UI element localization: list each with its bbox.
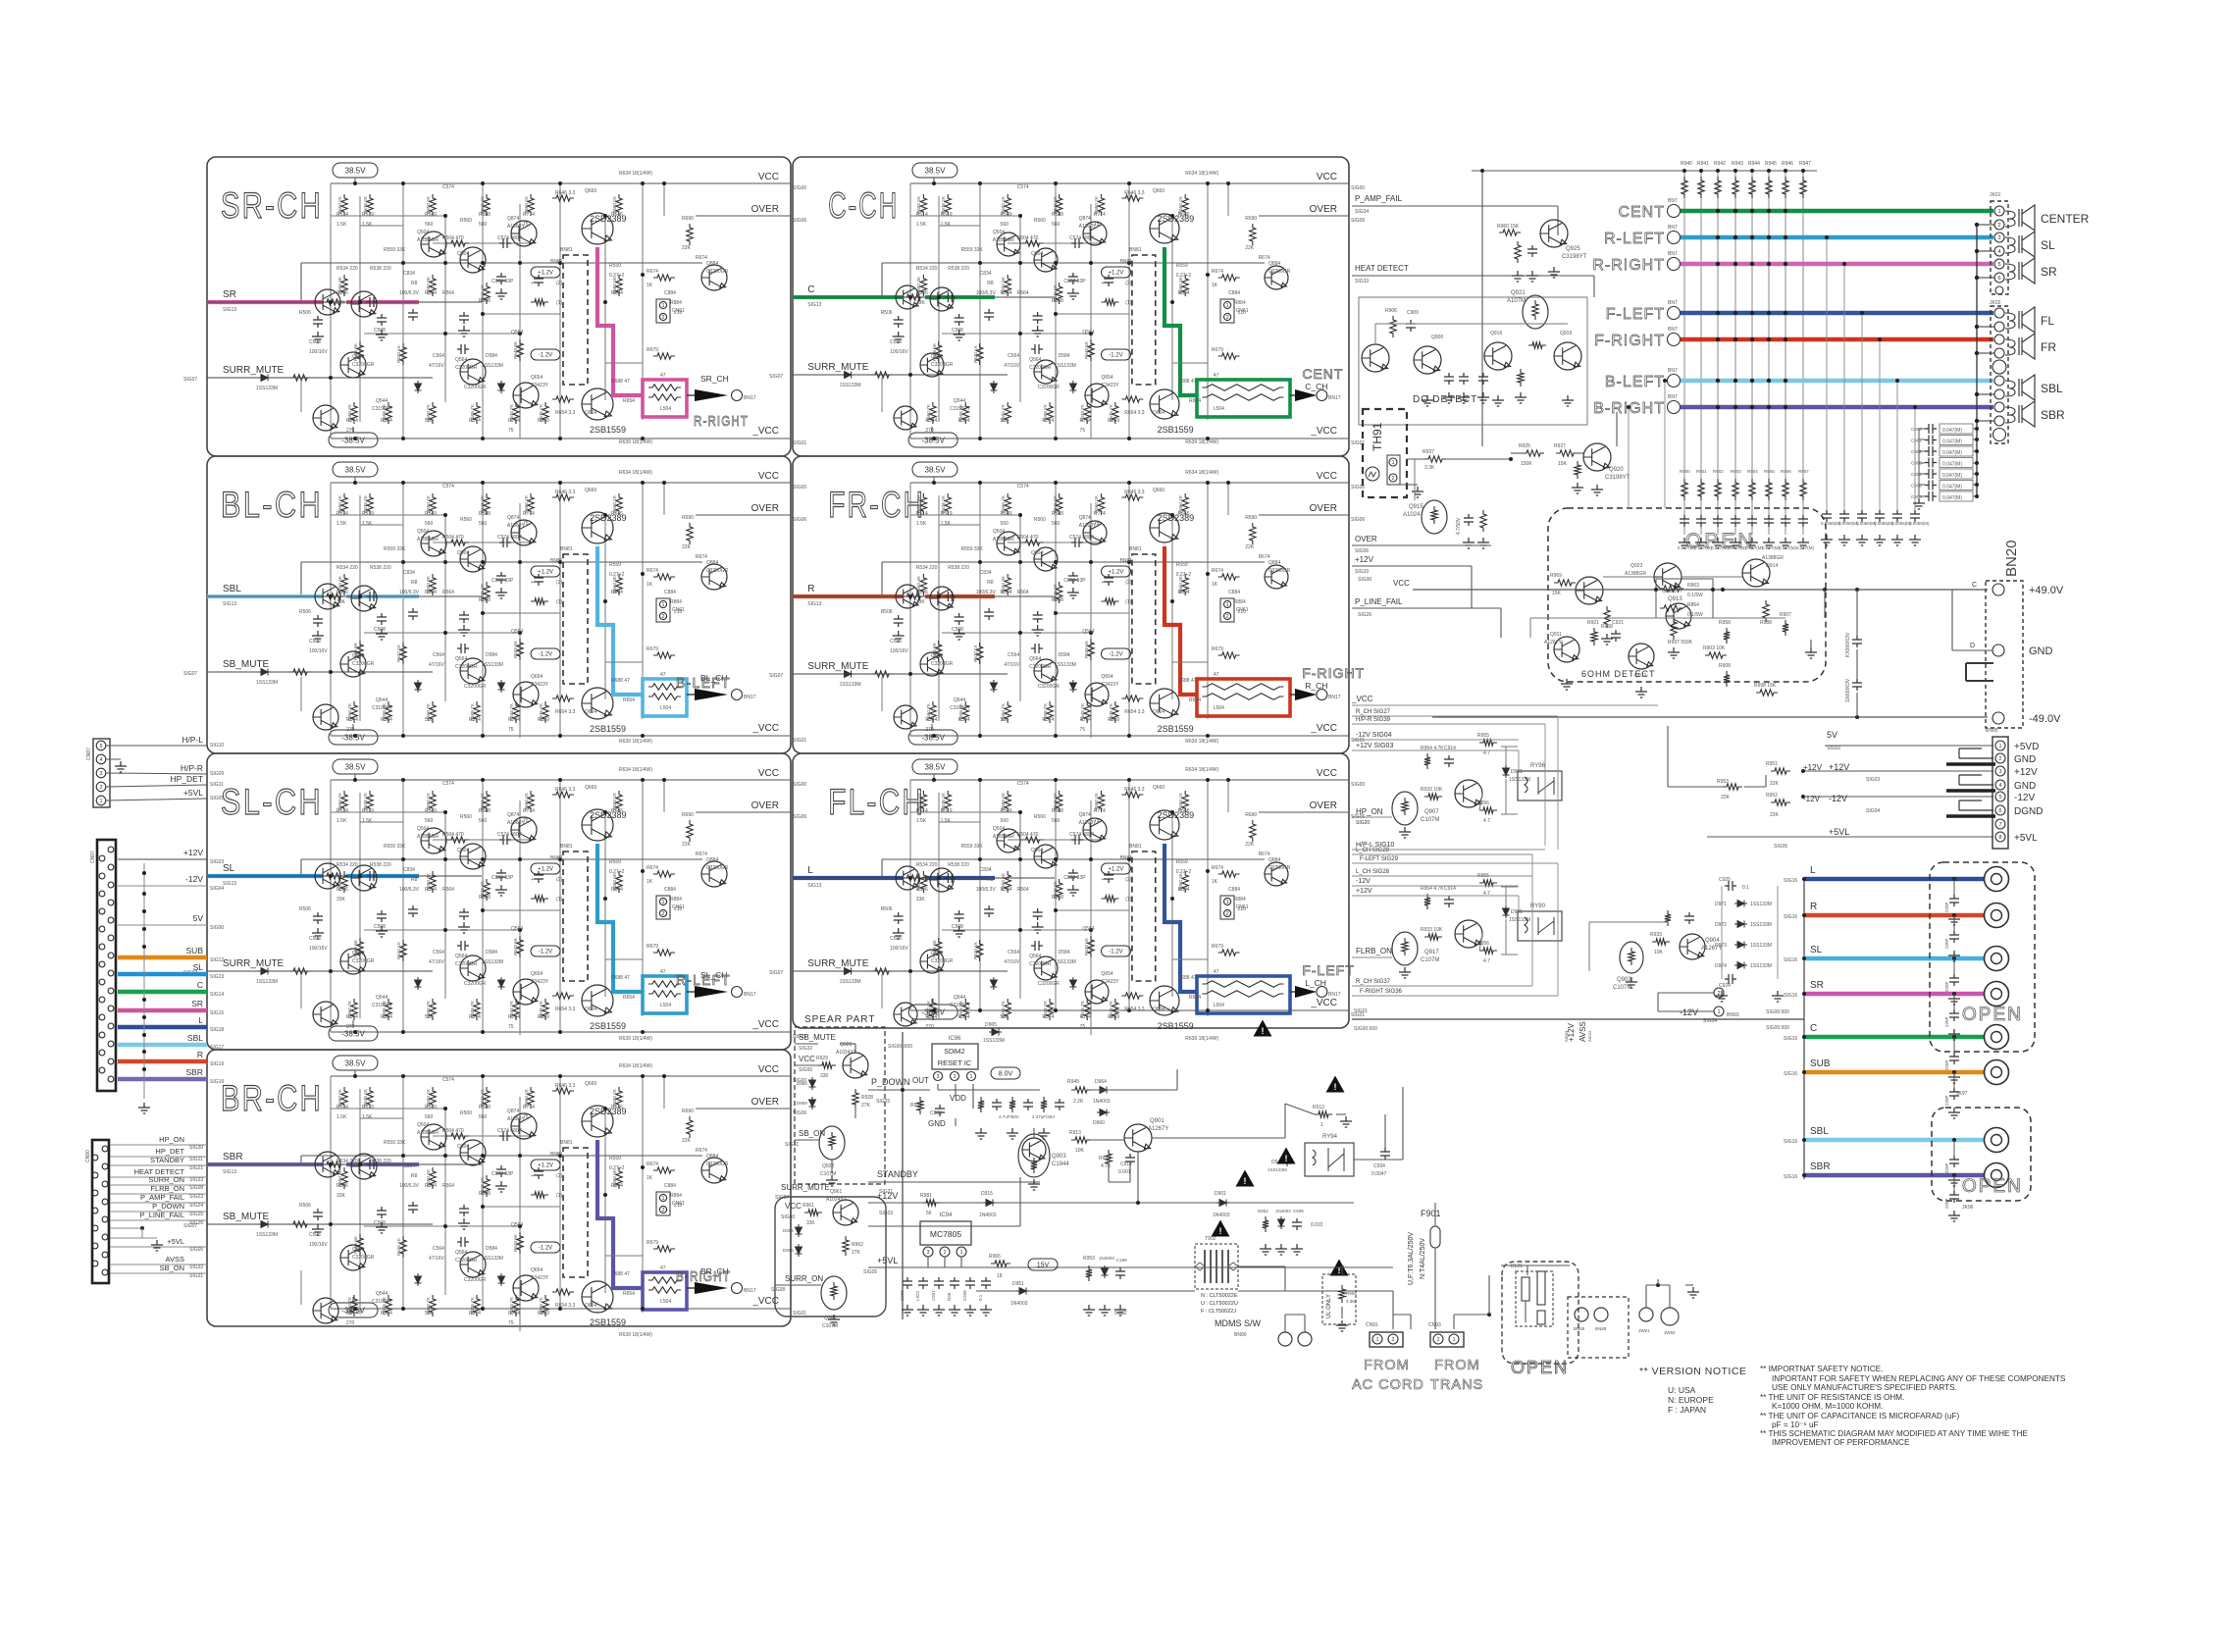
svg-text:4.7: 4.7 xyxy=(1483,958,1490,964)
svg-text:1.5K: 1.5K xyxy=(916,222,927,228)
svg-text:R690: R690 xyxy=(682,1109,694,1114)
svg-text:+12V: +12V xyxy=(877,1191,898,1201)
svg-text:SL: SL xyxy=(223,863,235,874)
svg-text:P_DOWN: P_DOWN xyxy=(871,1077,910,1087)
svg-text:R646: R646 xyxy=(611,212,623,218)
svg-text:SIG05: SIG05 xyxy=(863,1269,877,1275)
svg-text:1.5K: 1.5K xyxy=(336,222,347,228)
svg-text:R559: R559 xyxy=(1176,859,1188,865)
svg-text:R956: R956 xyxy=(1477,800,1489,806)
svg-text:Q660: Q660 xyxy=(585,785,596,791)
svg-text:R654 3.3: R654 3.3 xyxy=(1124,709,1145,715)
svg-text:R520 1K: R520 1K xyxy=(396,1237,401,1256)
svg-text:C834: C834 xyxy=(403,570,415,576)
svg-text:47: 47 xyxy=(660,969,666,975)
svg-text:1.5K: 1.5K xyxy=(941,818,952,824)
svg-text:R953: R953 xyxy=(1083,1256,1095,1262)
svg-text:R902: R902 xyxy=(1713,469,1724,474)
svg-text:Q884: Q884 xyxy=(1268,560,1280,566)
svg-text:SBR: SBR xyxy=(223,1152,243,1162)
svg-text:C3200GR: C3200GR xyxy=(464,385,487,390)
svg-text:A1267Y: A1267Y xyxy=(1544,640,1562,645)
svg-text:R639: R639 xyxy=(538,1014,549,1020)
svg-text:Q564: Q564 xyxy=(511,1222,523,1228)
svg-text:R997 550K: R997 550K xyxy=(1668,640,1693,645)
svg-text:4.7: 4.7 xyxy=(1483,750,1490,756)
svg-text:L922: L922 xyxy=(915,1290,920,1301)
svg-text:AC CORD: AC CORD xyxy=(1352,1377,1424,1393)
svg-text:270: 270 xyxy=(925,727,934,733)
svg-text:D960: D960 xyxy=(1093,1120,1105,1126)
svg-text:27K: 27K xyxy=(852,1250,861,1256)
svg-text:SIG11: SIG11 xyxy=(189,1157,203,1162)
svg-text:D972: D972 xyxy=(1715,922,1727,928)
svg-text:BN7: BN7 xyxy=(1668,327,1678,333)
svg-text:75: 75 xyxy=(1080,428,1086,434)
svg-text:3.3M: 3.3M xyxy=(1346,1299,1356,1304)
svg-text:SIG00: SIG00 xyxy=(781,1214,795,1220)
svg-text:R519: R519 xyxy=(941,511,953,517)
svg-text:C3200GR: C3200GR xyxy=(1029,961,1052,967)
svg-text:SIG00: SIG00 xyxy=(793,185,806,191)
svg-text:SIG13: SIG13 xyxy=(210,974,224,980)
svg-text:SIG17: SIG17 xyxy=(210,1045,224,1051)
svg-text:R549 6K: R549 6K xyxy=(1084,640,1089,658)
svg-text:BN90: BN90 xyxy=(1234,1332,1247,1338)
svg-text:2: 2 xyxy=(1717,991,1720,997)
svg-text:R564: R564 xyxy=(1017,590,1029,595)
svg-text:C: C xyxy=(1972,582,1977,589)
svg-text:R574: R574 xyxy=(1042,1014,1054,1020)
svg-text:SB_MUTE: SB_MUTE xyxy=(223,659,270,670)
svg-text:Q913: Q913 xyxy=(1668,596,1682,602)
svg-text:C574: C574 xyxy=(1017,484,1029,490)
svg-text:VCC: VCC xyxy=(1393,579,1410,588)
svg-text:Q654: Q654 xyxy=(585,410,596,416)
svg-text:C925: C925 xyxy=(1719,877,1731,883)
svg-text:+5VD: +5VD xyxy=(2014,742,2039,752)
svg-text:VCC: VCC xyxy=(1317,471,1337,482)
svg-text:560: 560 xyxy=(425,717,434,723)
svg-text:SIG00: SIG00 xyxy=(799,1067,812,1073)
svg-text:R784: R784 xyxy=(1080,717,1092,723)
svg-text:R958: R958 xyxy=(1719,620,1731,626)
svg-text:OVER: OVER xyxy=(1310,800,1337,811)
svg-text:C884: C884 xyxy=(664,290,676,296)
svg-text:L504: L504 xyxy=(1214,406,1224,412)
svg-text:R674: R674 xyxy=(647,568,658,574)
svg-text:10000/63V: 10000/63V xyxy=(1845,678,1851,702)
svg-text:C3198YT: C3198YT xyxy=(372,1299,392,1305)
svg-text:F-LEFT SIG29: F-LEFT SIG29 xyxy=(1360,856,1399,862)
svg-text:R947: R947 xyxy=(1799,161,1811,167)
svg-text:SIG26: SIG26 xyxy=(1358,612,1371,618)
svg-text:+1.2V: +1.2V xyxy=(1109,570,1124,576)
svg-text:R549: R549 xyxy=(1001,212,1012,218)
svg-text:R534 220: R534 220 xyxy=(336,266,358,272)
svg-text:0.047(M): 0.047(M) xyxy=(1745,545,1764,550)
svg-text:-12V: -12V xyxy=(1356,878,1371,885)
svg-text:Q564: Q564 xyxy=(455,656,467,662)
svg-text:C808 33P: C808 33P xyxy=(492,578,514,584)
svg-text:RESET IC: RESET IC xyxy=(938,1058,972,1067)
svg-text:C564: C564 xyxy=(1008,353,1019,359)
svg-text:R549: R549 xyxy=(425,1105,437,1110)
svg-text:SL: SL xyxy=(2041,238,2055,252)
svg-text:C3198YT: C3198YT xyxy=(372,1003,392,1008)
svg-text:R559: R559 xyxy=(609,1156,621,1162)
svg-text:R903 10K: R903 10K xyxy=(1703,645,1726,651)
svg-text:+12V SIG03: +12V SIG03 xyxy=(1356,743,1393,749)
svg-text:RY94: RY94 xyxy=(1322,1134,1338,1140)
svg-text:C3200GR: C3200GR xyxy=(931,958,954,964)
svg-text:C936: C936 xyxy=(962,1290,967,1301)
svg-text:+12V: +12V xyxy=(2014,767,2038,778)
svg-text:5V: 5V xyxy=(193,913,204,923)
svg-text:BN85: BN85 xyxy=(1574,1326,1585,1331)
svg-text:C574: C574 xyxy=(442,781,454,787)
svg-text:C505: C505 xyxy=(309,639,321,645)
svg-text:R560: R560 xyxy=(460,1110,472,1116)
svg-text:K=1000 OHM, M=1000 KOHM.: K=1000 OHM, M=1000 KOHM. xyxy=(1772,1402,1883,1411)
svg-text:R913: R913 xyxy=(1069,1130,1081,1136)
svg-text:0.047(M): 0.047(M) xyxy=(1942,473,1962,479)
svg-text:C3200GR: C3200GR xyxy=(1268,568,1291,574)
svg-text:BN7: BN7 xyxy=(1668,251,1678,257)
svg-text:VCC: VCC xyxy=(758,471,779,482)
svg-text:38.5V: 38.5V xyxy=(345,1058,367,1067)
svg-text:Q874: Q874 xyxy=(507,1109,519,1114)
svg-text:R584: R584 xyxy=(1001,887,1012,893)
svg-text:Q923: Q923 xyxy=(1630,563,1642,569)
svg-text:A1388GR: A1388GR xyxy=(1625,571,1646,577)
svg-text:C3200GR: C3200GR xyxy=(464,1277,487,1283)
svg-text:SIG18: SIG18 xyxy=(210,1027,224,1033)
svg-text:HP_DET: HP_DET xyxy=(170,774,203,784)
svg-text:D959: D959 xyxy=(797,1101,807,1106)
svg-text:1K: 1K xyxy=(1212,582,1218,588)
svg-text:+5VL: +5VL xyxy=(877,1256,898,1265)
svg-text:SIG07: SIG07 xyxy=(769,970,783,976)
svg-text:1N4003: 1N4003 xyxy=(1213,1213,1230,1218)
svg-text:SIG00: SIG00 xyxy=(793,485,806,490)
svg-text:+: + xyxy=(1101,580,1104,586)
svg-text:1: 1 xyxy=(1226,303,1229,309)
svg-text:SIG04: SIG04 xyxy=(210,886,224,892)
svg-text:R584: R584 xyxy=(381,717,392,723)
svg-text:R560: R560 xyxy=(1034,517,1046,523)
svg-text:A1267Y: A1267Y xyxy=(1148,1126,1168,1132)
svg-text:R544: R544 xyxy=(346,1311,358,1316)
svg-text:1SS133M: 1SS133M xyxy=(840,383,861,388)
svg-text:BN93: BN93 xyxy=(1727,1012,1739,1018)
svg-text:10K: 10K xyxy=(1075,1148,1085,1154)
svg-text:220P: 220P xyxy=(1944,1095,1949,1106)
svg-text:R654: R654 xyxy=(623,398,635,404)
svg-text:+12V: +12V xyxy=(1829,762,1849,772)
svg-text:R36: R36 xyxy=(947,1292,952,1301)
svg-text:R560: R560 xyxy=(460,218,472,224)
svg-text:R520 1K: R520 1K xyxy=(396,941,401,959)
svg-text:R559: R559 xyxy=(1176,562,1188,568)
svg-text:R506: R506 xyxy=(336,590,348,595)
svg-text:C564: C564 xyxy=(433,652,444,658)
svg-text:Q559: Q559 xyxy=(931,354,943,360)
svg-text:1: 1 xyxy=(1375,1337,1378,1343)
svg-text:-1.2V: -1.2V xyxy=(1109,353,1122,359)
svg-text:0.047(M): 0.047(M) xyxy=(1694,545,1713,550)
svg-text:3: 3 xyxy=(936,1074,939,1080)
svg-text:A1360Y: A1360Y xyxy=(507,820,525,826)
svg-text:+1.2V: +1.2V xyxy=(538,1163,553,1169)
svg-text:JK01: JK01 xyxy=(1990,192,2001,198)
svg-text:100/16V: 100/16V xyxy=(309,648,328,654)
svg-text:560: 560 xyxy=(1001,521,1009,527)
svg-text:BN81: BN81 xyxy=(1129,247,1142,253)
svg-text:SIG16: SIG16 xyxy=(1784,993,1797,999)
svg-text:R634 18(1/4W): R634 18(1/4W) xyxy=(1185,767,1218,773)
svg-text:560: 560 xyxy=(425,418,434,424)
svg-text:1SS133M: 1SS133M xyxy=(1055,363,1076,369)
svg-text:R679: R679 xyxy=(647,347,658,353)
svg-text:SIG25: SIG25 xyxy=(876,1099,890,1105)
svg-text:A1360Y: A1360Y xyxy=(1079,820,1097,826)
svg-text:1.5K: 1.5K xyxy=(362,1114,373,1120)
svg-text:+1.2V: +1.2V xyxy=(538,570,553,576)
svg-text:R679: R679 xyxy=(647,944,658,950)
svg-text:(1): (1) xyxy=(1125,897,1131,903)
svg-text:SURR_MUTE: SURR_MUTE xyxy=(807,661,869,672)
svg-text:C574 680P: C574 680P xyxy=(497,1128,523,1134)
svg-text:R988: R988 xyxy=(1760,620,1772,626)
svg-text:220P: 220P xyxy=(1944,938,1949,949)
svg-text:** VERSION NOTICE: ** VERSION NOTICE xyxy=(1639,1366,1746,1377)
svg-text:210: 210 xyxy=(674,609,683,615)
svg-text:R559 33K: R559 33K xyxy=(384,844,406,850)
svg-text:R646: R646 xyxy=(611,511,623,517)
svg-text:Q504: Q504 xyxy=(417,529,429,535)
svg-text:47/16V: 47/16V xyxy=(429,1256,445,1262)
svg-text:D973: D973 xyxy=(1715,943,1727,949)
svg-text:2SB1559: 2SB1559 xyxy=(1158,1021,1194,1031)
svg-text:L: L xyxy=(1810,865,1816,876)
svg-text:0.27+2: 0.27+2 xyxy=(609,273,625,279)
svg-text:BN81: BN81 xyxy=(1120,558,1133,564)
svg-text:R584: R584 xyxy=(958,717,970,723)
svg-text:R544: R544 xyxy=(925,418,937,424)
svg-text:38.5V: 38.5V xyxy=(925,166,947,175)
svg-text:C3200GR: C3200GR xyxy=(352,958,375,964)
svg-text:BN81: BN81 xyxy=(560,247,573,253)
svg-text:8: 8 xyxy=(1998,835,2001,841)
svg-text:2SB1559: 2SB1559 xyxy=(1158,724,1194,734)
svg-text:R504 470: R504 470 xyxy=(1017,535,1039,541)
svg-text:R884: R884 xyxy=(670,1193,682,1199)
svg-text:+: + xyxy=(531,1173,534,1179)
svg-text:R504 470: R504 470 xyxy=(442,1128,464,1134)
svg-text:22K: 22K xyxy=(1245,245,1255,251)
svg-text:R508: R508 xyxy=(479,298,491,304)
svg-text:R784: R784 xyxy=(508,418,520,424)
svg-text:R908: R908 xyxy=(1719,663,1731,669)
svg-text:0.1/5W: 0.1/5W xyxy=(1687,612,1703,618)
svg-text:R969: R969 xyxy=(1550,573,1562,579)
svg-text:SIG24: SIG24 xyxy=(1355,209,1369,215)
svg-text:R953: R953 xyxy=(1717,779,1729,785)
svg-text:R646: R646 xyxy=(1178,808,1190,814)
svg-text:U: USA: U: USA xyxy=(1668,1385,1696,1395)
svg-text:Q884: Q884 xyxy=(706,857,718,863)
svg-text:L504: L504 xyxy=(660,705,671,711)
svg-text:R514: R514 xyxy=(336,511,348,517)
svg-text:Q654: Q654 xyxy=(531,1267,543,1273)
svg-text:3: 3 xyxy=(99,771,102,777)
svg-text:Q874: Q874 xyxy=(1079,216,1091,222)
svg-text:C3423Y: C3423Y xyxy=(1101,682,1119,688)
svg-text:270: 270 xyxy=(346,1024,355,1030)
svg-text:1: 1 xyxy=(1226,602,1229,608)
svg-text:R604: R604 xyxy=(1178,590,1190,595)
svg-text:R519: R519 xyxy=(941,808,953,814)
svg-text:Q654: Q654 xyxy=(531,375,543,381)
svg-text:R_CH SIG27: R_CH SIG27 xyxy=(1356,709,1391,715)
svg-text:N: EUROPE: N: EUROPE xyxy=(1668,1395,1714,1405)
svg-text:C505: C505 xyxy=(309,1232,321,1238)
svg-text:SIG16: SIG16 xyxy=(1784,1174,1797,1180)
svg-text:Q564: Q564 xyxy=(511,330,523,336)
svg-text:SIG00:600: SIG00:600 xyxy=(1766,1025,1789,1031)
svg-text:F : CLT50022J: F : CLT50022J xyxy=(1201,1309,1236,1315)
svg-text:R544: R544 xyxy=(925,1014,937,1020)
svg-text:0.047(M): 0.047(M) xyxy=(1942,428,1962,434)
svg-text:R8: R8 xyxy=(411,580,418,586)
svg-text:100/6.3V: 100/6.3V xyxy=(976,290,997,296)
svg-text:H/P-L: H/P-L xyxy=(181,735,203,745)
svg-text:100/16V: 100/16V xyxy=(890,648,908,654)
svg-text:SIG31: SIG31 xyxy=(785,1142,799,1148)
svg-text:0.047(M): 0.047(M) xyxy=(1942,485,1962,490)
svg-text:CN93: CN93 xyxy=(1428,1322,1441,1328)
svg-text:R784: R784 xyxy=(508,1311,520,1316)
svg-text:R929: R929 xyxy=(816,1056,828,1061)
svg-text:38.5V: 38.5V xyxy=(345,465,367,474)
svg-text:R774: R774 xyxy=(1094,808,1106,814)
svg-text:100/16V: 100/16V xyxy=(309,946,328,952)
svg-text:R928: R928 xyxy=(861,1095,873,1101)
svg-text:1.5K: 1.5K xyxy=(362,222,373,228)
svg-text:SIG22: SIG22 xyxy=(1587,1030,1592,1042)
svg-text:SIG06: SIG06 xyxy=(793,218,806,224)
svg-text:D971: D971 xyxy=(1715,902,1727,907)
svg-text:C505: C505 xyxy=(890,339,902,345)
svg-text:R564: R564 xyxy=(442,887,454,893)
svg-text:560: 560 xyxy=(425,1014,434,1020)
svg-text:33K: 33K xyxy=(916,300,926,306)
svg-text:SIG08: SIG08 xyxy=(771,1287,785,1293)
svg-text:R574: R574 xyxy=(1042,717,1054,723)
svg-text:R604: R604 xyxy=(1178,887,1190,893)
svg-text:Q564: Q564 xyxy=(1082,629,1094,635)
svg-text:SIG06: SIG06 xyxy=(793,814,806,820)
svg-text:R559 33K: R559 33K xyxy=(384,1140,406,1146)
svg-text:R962: R962 xyxy=(852,1242,863,1248)
svg-text:SURR_ON: SURR_ON xyxy=(148,1175,184,1184)
svg-text:R688 47: R688 47 xyxy=(1178,975,1197,981)
svg-text:1.5K: 1.5K xyxy=(916,818,927,824)
svg-text:SIG10: SIG10 xyxy=(210,743,224,749)
svg-text:R574: R574 xyxy=(469,1014,481,1020)
svg-text:Q928: Q928 xyxy=(822,1163,834,1169)
svg-text:+5VL: +5VL xyxy=(183,788,203,798)
svg-text:R690: R690 xyxy=(682,515,694,521)
svg-text:L504: L504 xyxy=(1214,705,1224,711)
svg-text:C-CH: C-CH xyxy=(828,185,899,226)
svg-text:B-LEFT: B-LEFT xyxy=(1605,374,1665,390)
svg-text:R639 18(1/4W): R639 18(1/4W) xyxy=(1185,739,1218,745)
svg-text:OVER: OVER xyxy=(751,503,779,514)
svg-text:47/16V: 47/16V xyxy=(429,662,445,668)
svg-text:2: 2 xyxy=(661,1208,664,1213)
svg-text:R690: R690 xyxy=(682,216,694,222)
svg-text:R520 1K: R520 1K xyxy=(396,644,401,662)
svg-text:R559: R559 xyxy=(609,562,621,568)
svg-text:R508: R508 xyxy=(479,895,491,901)
svg-text:560: 560 xyxy=(1052,521,1061,527)
svg-text:4: 4 xyxy=(1998,783,2001,789)
svg-text:DL91: DL91 xyxy=(1511,1264,1523,1269)
svg-text:H/P-R: H/P-R xyxy=(181,763,203,773)
svg-text:0.1: 0.1 xyxy=(978,1294,983,1301)
svg-text:Q544: Q544 xyxy=(376,995,388,1001)
svg-text:R: R xyxy=(197,1050,203,1059)
svg-text:R520 1K: R520 1K xyxy=(973,344,978,363)
svg-text:100/16V: 100/16V xyxy=(890,946,908,952)
svg-text:C884: C884 xyxy=(664,887,676,893)
svg-text:(1): (1) xyxy=(1125,300,1131,306)
svg-text:C574 680P: C574 680P xyxy=(1069,535,1095,541)
svg-text:R506: R506 xyxy=(881,609,893,615)
svg-text:C508: C508 xyxy=(952,924,963,930)
svg-text:33K: 33K xyxy=(336,300,346,306)
svg-text:R544: R544 xyxy=(346,418,358,424)
svg-text:R549: R549 xyxy=(1001,808,1012,814)
svg-text:4.7K: 4.7K xyxy=(1101,1163,1112,1169)
svg-text:Q874: Q874 xyxy=(507,515,519,521)
svg-text:A1888GR: A1888GR xyxy=(417,834,439,840)
svg-text:R506: R506 xyxy=(916,590,928,595)
svg-text:D584: D584 xyxy=(1059,353,1070,359)
svg-text:SR: SR xyxy=(191,999,203,1008)
svg-text:1SS133M: 1SS133M xyxy=(1055,662,1076,668)
svg-text:Q660: Q660 xyxy=(1153,188,1164,194)
svg-text:Q925: Q925 xyxy=(1566,246,1580,252)
svg-text:C564: C564 xyxy=(433,950,444,955)
svg-text:VCC: VCC xyxy=(758,1064,779,1075)
svg-text:Q544: Q544 xyxy=(954,697,965,703)
svg-text:SIG07: SIG07 xyxy=(769,673,783,679)
svg-text:(2): (2) xyxy=(1125,281,1131,286)
svg-text:R584: R584 xyxy=(958,418,970,424)
svg-text:R961: R961 xyxy=(802,1203,814,1209)
svg-text:560: 560 xyxy=(425,1114,434,1120)
svg-text:C3198YT: C3198YT xyxy=(1605,475,1630,481)
svg-text:1SS133M: 1SS133M xyxy=(482,662,503,668)
svg-text:R674: R674 xyxy=(647,269,658,275)
svg-text:R504 470: R504 470 xyxy=(1017,235,1039,241)
svg-text:!: ! xyxy=(1334,1082,1337,1092)
svg-text:USE ONLY MANUFACTURE'S SPEC: USE ONLY MANUFACTURE'S SPECIFIED PARTS. xyxy=(1772,1383,1957,1392)
svg-text:R903: R903 xyxy=(1731,469,1741,474)
